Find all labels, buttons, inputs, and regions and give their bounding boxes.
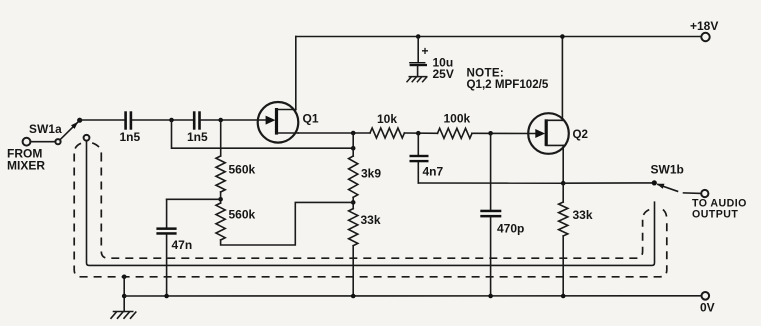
wire 0V bottom rail — [124, 295, 701, 297]
capacitor C5 470p — [480, 133, 501, 296]
resistor R 10k — [370, 128, 404, 138]
node rail 470p dot — [488, 294, 493, 299]
svg-text:MIXER: MIXER — [7, 159, 45, 173]
wire junction to 47n — [167, 198, 221, 200]
svg-text:10k: 10k — [377, 112, 397, 126]
resistor R 100k — [438, 128, 473, 138]
wire screened cable centre conductor — [87, 141, 655, 266]
node 470p junction dot — [488, 131, 493, 136]
svg-text:SW1a: SW1a — [29, 122, 62, 136]
wire 560k top stub — [220, 120, 222, 156]
wire 100k to Q2 gate — [472, 132, 536, 134]
svg-text:+: + — [422, 44, 429, 58]
node 560k junction dot — [218, 197, 223, 202]
wire 33k to bottom rail — [352, 246, 354, 296]
wire Q1 drain to +18V rail — [295, 37, 297, 110]
transistor Q2 — [528, 113, 569, 154]
svg-text:4n7: 4n7 — [423, 165, 444, 179]
capacitor C1 1n5 — [124, 111, 132, 129]
switch SW1b — [652, 180, 709, 197]
node 4n7 junction dot — [416, 131, 421, 136]
node shield ground junction dot — [122, 275, 127, 280]
wire 3k9 to 33k — [352, 197, 354, 208]
resistor R 3k9 — [349, 156, 358, 197]
svg-text:+18V: +18V — [690, 19, 718, 33]
svg-text:Q1: Q1 — [303, 112, 319, 126]
terminal +18V — [701, 33, 709, 41]
transistor Q1 — [258, 102, 299, 143]
resistor R 33k right — [559, 183, 568, 296]
ground chassis bottom left — [111, 312, 137, 319]
wire Q1 source to 10k — [298, 132, 370, 134]
switch SW1a — [23, 118, 83, 146]
wire Q2 source down — [562, 145, 564, 183]
node rail 33k-left dot — [351, 294, 356, 299]
svg-text:470p: 470p — [497, 222, 524, 236]
svg-text:3k9: 3k9 — [361, 167, 381, 181]
capacitor C4 4n7 — [410, 133, 429, 183]
wire 10k to 100k — [404, 132, 437, 134]
node A junction dot — [169, 118, 174, 123]
svg-text:OUTPUT: OUTPUT — [692, 208, 738, 220]
svg-text:33k: 33k — [573, 208, 593, 222]
resistor R 560k upper — [216, 156, 225, 192]
node Q2 source junction dot — [561, 181, 566, 186]
capacitor C2 1n5 — [193, 111, 201, 129]
node rail-Q2 junction dot — [560, 34, 565, 39]
wire 3k9 top stub — [352, 133, 354, 156]
svg-text:33k: 33k — [361, 213, 381, 227]
shield dashed inner — [101, 154, 642, 259]
terminal 0V — [702, 292, 710, 300]
capacitor C3 10u electrolytic — [409, 37, 427, 77]
wire Q2 drain to rail — [561, 37, 563, 121]
wire SW1a to C1 — [80, 119, 124, 121]
shield arc right-end inner — [643, 210, 650, 220]
ground chassis under 10u — [407, 77, 428, 83]
wire C2 to Q1 gate — [201, 119, 266, 121]
svg-text:1n5: 1n5 — [120, 130, 141, 144]
resistor R 33k left — [349, 209, 358, 246]
wire 560k junction stub — [220, 192, 222, 203]
node rail-10u junction dot — [416, 34, 421, 39]
svg-text:SW1b: SW1b — [651, 163, 684, 177]
svg-text:0V: 0V — [700, 301, 715, 315]
wire source node to SW1b — [563, 182, 654, 184]
wire 560k bottom route to 3k9/33k junction — [221, 202, 354, 245]
resistor R 560k lower — [216, 203, 225, 240]
wire C1 to C2 — [132, 119, 193, 121]
shield arc right-end outer — [663, 210, 667, 220]
node 3k9/33k junction dot — [351, 200, 356, 205]
svg-text:47n: 47n — [172, 238, 193, 252]
wire bootstrap node A down and right — [172, 120, 354, 148]
capacitor C6 47n — [156, 199, 176, 296]
node rail ground junction dot — [122, 294, 127, 299]
wire bootstrap 4n7 to Q2 source — [418, 182, 563, 184]
node bootstrap-3k9 junction dot — [351, 146, 356, 151]
wire shield to ground rail — [123, 277, 125, 312]
svg-text:Q2: Q2 — [573, 128, 588, 141]
svg-text:560k: 560k — [229, 208, 256, 222]
node Q1 source/3k9 junction dot — [351, 131, 356, 136]
shield arc left-end right — [92, 143, 101, 154]
svg-text:25V: 25V — [433, 67, 454, 81]
screened cable left end circle — [84, 135, 90, 141]
shield dashed outer (left vertical, bottom, right vertical) — [74, 154, 667, 277]
svg-text:100k: 100k — [444, 112, 471, 126]
wire +18V top rail — [296, 36, 702, 38]
shield arc left-end left — [74, 143, 81, 153]
node rail 33k-right dot — [561, 294, 566, 299]
node B junction dot — [218, 118, 223, 123]
svg-text:1n5: 1n5 — [187, 130, 208, 144]
node rail 47n dot — [164, 294, 169, 299]
svg-text:560k: 560k — [229, 163, 256, 177]
svg-text:Q1,2 MPF102/5: Q1,2 MPF102/5 — [467, 78, 549, 91]
